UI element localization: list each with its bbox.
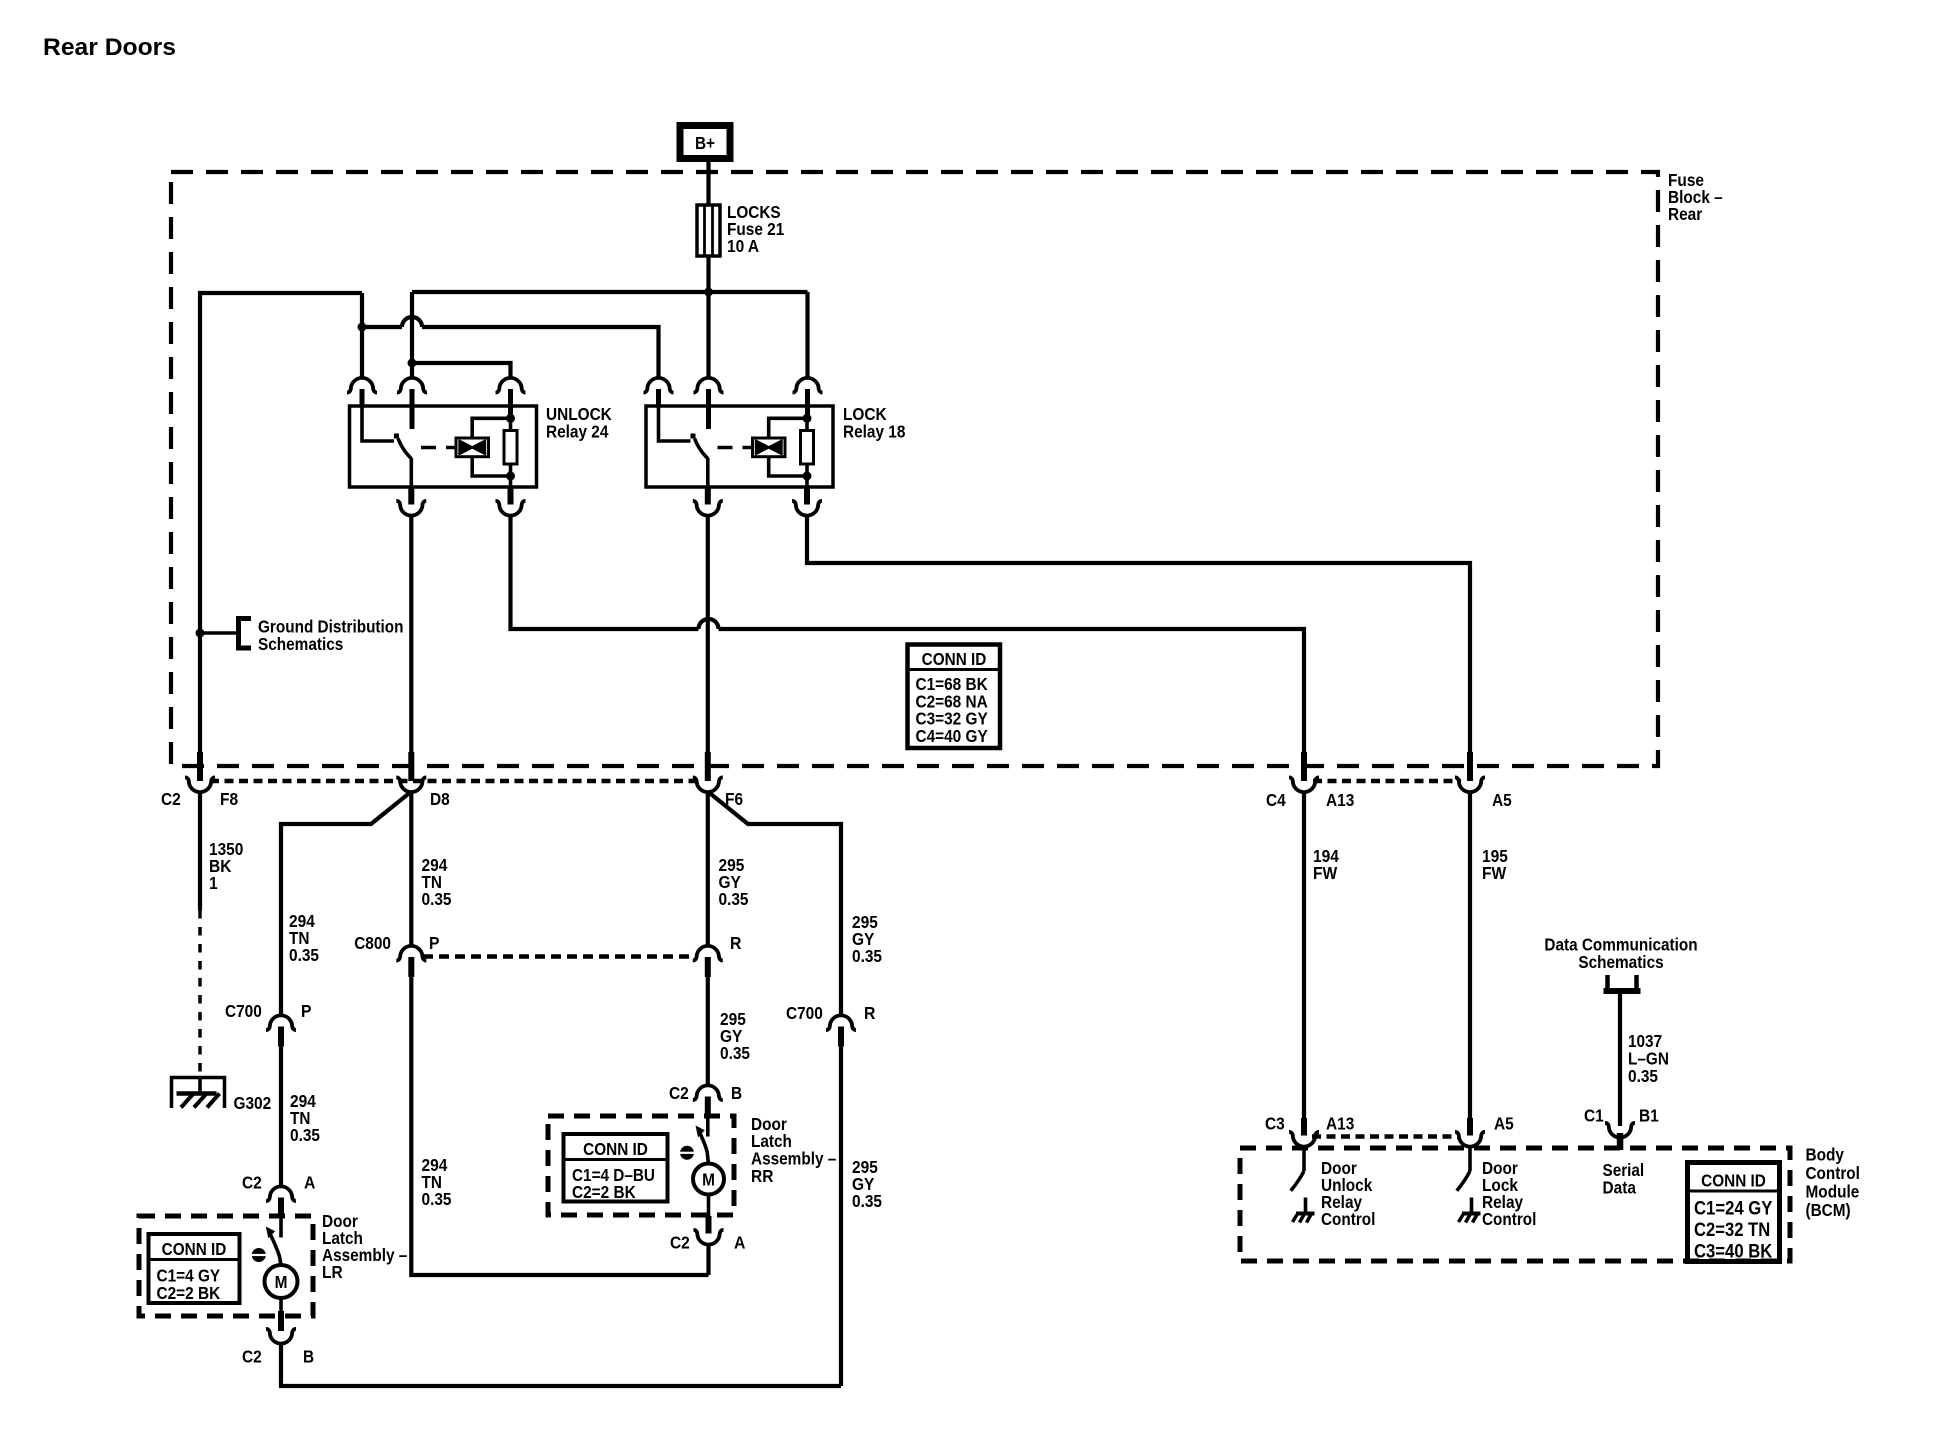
svg-text:0.35: 0.35 xyxy=(720,1043,750,1063)
svg-text:CONN ID: CONN ID xyxy=(922,649,987,669)
connector at lock relay pin 1 xyxy=(644,378,674,406)
connector table CONN ID (RR latch) xyxy=(564,1134,668,1202)
ground distribution off-page bracket xyxy=(239,619,252,649)
lock relay coil xyxy=(753,438,786,457)
svg-text:C2: C2 xyxy=(242,1347,262,1367)
svg-text:Control: Control xyxy=(1806,1163,1860,1183)
label: UNLOCK Relay 24 xyxy=(546,404,612,442)
svg-text:0.35: 0.35 xyxy=(289,945,319,965)
unlock relay fixed contact wire xyxy=(362,406,394,441)
fuse block - rear dashed outline box xyxy=(171,172,1658,766)
wire: circuit 1037 serial data xyxy=(1618,994,1622,1126)
wire: unlock relay pin 4 down to D8 xyxy=(409,514,413,753)
connector at lock relay pin 3 xyxy=(793,378,823,419)
svg-text:0.35: 0.35 xyxy=(1628,1066,1658,1086)
svg-text:Relay 24: Relay 24 xyxy=(546,422,609,442)
lock relay fixed contact wire xyxy=(659,406,691,441)
svg-text:Schematics: Schematics xyxy=(258,634,344,654)
svg-text:Body: Body xyxy=(1806,1145,1845,1165)
wire: F6 branch to C700 R xyxy=(709,793,841,1017)
wire: lock coil bottom rail xyxy=(769,457,807,476)
label: LOCK Relay 18 xyxy=(843,404,906,442)
label: 294 TN 0.35 (C700 branch) xyxy=(289,911,319,965)
wire: C800 P to RR latch pin A xyxy=(411,977,708,1275)
label: 295 GY 0.35 (right side) xyxy=(852,1157,882,1211)
junction unlock coil top xyxy=(506,414,515,423)
svg-text:C2=2 BK: C2=2 BK xyxy=(572,1182,636,1202)
wire: RR motor to pin A xyxy=(707,1195,711,1217)
svg-text:1: 1 xyxy=(209,873,218,893)
wire: branch to unlock relay pin 3 xyxy=(412,363,511,379)
svg-text:Data: Data xyxy=(1603,1178,1637,1198)
wire: unlock switch arm to pin 4 xyxy=(409,458,413,487)
label: 1350 BK 1 xyxy=(209,839,244,893)
svg-text:C4=40 GY: C4=40 GY xyxy=(916,726,988,746)
svg-text:CONN ID: CONN ID xyxy=(583,1139,648,1159)
svg-text:C3=40 BK: C3=40 BK xyxy=(1694,1242,1773,1263)
svg-text:P: P xyxy=(301,1001,312,1021)
wire: vertical from rail to unlock relay pin 2 xyxy=(410,292,414,379)
svg-text:C2: C2 xyxy=(669,1083,689,1103)
wire: D8 branch to C700 P xyxy=(281,793,410,1017)
svg-text:C2=2 BK: C2=2 BK xyxy=(157,1283,221,1303)
wire: BCM unlock driver stub xyxy=(1302,1146,1306,1172)
svg-text:B1: B1 xyxy=(1639,1106,1659,1126)
svg-text:(BCM): (BCM) xyxy=(1806,1200,1851,1220)
wire: unlock relay pin 5 to BCM A13 feed with hop over F6 wire xyxy=(511,514,1305,753)
svg-text:0.35: 0.35 xyxy=(422,889,452,909)
svg-text:C1=24 GY: C1=24 GY xyxy=(1694,1199,1773,1220)
connector C2 pin B (RR latch) xyxy=(693,1085,723,1114)
svg-text:10 A: 10 A xyxy=(727,236,759,256)
svg-text:M: M xyxy=(275,1272,288,1292)
wire: resistor stubs xyxy=(509,418,513,487)
LR latch actuator symbol xyxy=(251,1248,266,1262)
svg-text:Module: Module xyxy=(1806,1182,1860,1202)
BCM unlock driver ground xyxy=(1293,1198,1315,1223)
svg-text:F8: F8 xyxy=(220,789,238,809)
in-line connector row BCM dotted line xyxy=(1312,1134,1458,1139)
wire: fuse to feed rail xyxy=(706,256,710,292)
connector table CONN ID (BCM) xyxy=(1688,1163,1780,1263)
svg-text:A5: A5 xyxy=(1494,1114,1514,1134)
svg-text:0.35: 0.35 xyxy=(290,1125,320,1145)
junction on unlock output branch xyxy=(358,323,367,332)
door latch assembly LR dashed box xyxy=(139,1216,313,1316)
in-line connector row C4 dotted line xyxy=(1313,779,1461,784)
wire: lock relay pin 5 to BCM A5 feed xyxy=(807,514,1470,753)
connector C3 pin A5 (BCM) xyxy=(1455,1118,1485,1147)
label: 295 GY 0.35 (F6 drop) xyxy=(719,855,749,909)
LR latch switch arm with arrowhead xyxy=(266,1227,281,1266)
svg-text:0.35: 0.35 xyxy=(719,889,749,909)
label: Door Latch Assembly - RR xyxy=(751,1114,837,1186)
connector table CONN ID (fuse block) xyxy=(908,645,1001,749)
svg-text:0.35: 0.35 xyxy=(422,1189,452,1209)
wire: LR motor to pin B xyxy=(279,1298,283,1312)
wire: C800 R to RR latch pin B xyxy=(706,977,710,1087)
svg-text:C4: C4 xyxy=(1266,790,1286,810)
svg-text:A: A xyxy=(304,1173,316,1193)
svg-text:M: M xyxy=(702,1170,715,1190)
svg-text:C2: C2 xyxy=(161,789,181,809)
label: 294 TN 0.35 (D8 drop) xyxy=(422,855,452,909)
lock relay contact point xyxy=(691,434,696,439)
connector table CONN ID (LR latch) xyxy=(149,1234,240,1303)
connector C1 pin B1 xyxy=(1605,1123,1635,1150)
svg-text:C2: C2 xyxy=(670,1233,690,1253)
wire: B+ to fuse xyxy=(706,162,710,206)
wire: bottom link LR latch B to 295 GY xyxy=(281,1343,841,1387)
BCM unlock driver switch arm xyxy=(1291,1171,1304,1191)
junction unlock coil feed xyxy=(408,359,417,368)
svg-text:FW: FW xyxy=(1313,863,1338,883)
door latch assembly RR dashed box xyxy=(548,1116,734,1215)
wire: branch rail to lock relay pin 1 with hop xyxy=(362,317,659,379)
svg-text:R: R xyxy=(864,1003,876,1023)
label: Ground Distribution Schematics xyxy=(258,617,404,655)
junction lock coil bottom xyxy=(803,472,812,481)
unlock relay coil linkage (dashed) xyxy=(421,446,456,450)
wire: F6 to C800 R xyxy=(706,791,710,948)
svg-text:Rear: Rear xyxy=(1668,204,1702,224)
wire: fuse node down to lock relay pin 30 xyxy=(706,292,710,379)
connector at unlock relay pin 4 xyxy=(396,487,426,516)
wire: circuit 1350 BK to ground (part solid) xyxy=(198,791,202,910)
in-line connector row C800 dotted line xyxy=(423,954,696,959)
connector at lock relay pin 4 xyxy=(693,487,723,516)
label: Data Communication Schematics xyxy=(1544,935,1697,973)
relay K18 LOCK Relay box xyxy=(646,406,833,487)
svg-text:Control: Control xyxy=(1482,1209,1536,1229)
wire: RR latch B pin into switch xyxy=(706,1115,710,1137)
connector C2 pin A (LR latch) xyxy=(266,1186,296,1215)
svg-text:B: B xyxy=(303,1347,314,1367)
lock relay resistor xyxy=(801,431,814,465)
svg-text:0.35: 0.35 xyxy=(852,1191,882,1211)
svg-text:RR: RR xyxy=(751,1166,774,1186)
svg-text:A13: A13 xyxy=(1326,1114,1355,1134)
svg-text:CONN ID: CONN ID xyxy=(1701,1171,1766,1191)
junction at fuse node xyxy=(704,288,713,297)
svg-text:P: P xyxy=(429,933,440,953)
junction to ground distribution xyxy=(196,629,205,638)
connector C2 pin D8 xyxy=(396,752,426,792)
label: Door Unlock Relay Control xyxy=(1321,1158,1375,1229)
svg-text:R: R xyxy=(730,933,742,953)
svg-text:A5: A5 xyxy=(1492,790,1512,810)
wire: rail corner down to lock relay coil pin xyxy=(805,292,809,379)
junction lock coil top xyxy=(803,414,812,423)
label: 195 FW xyxy=(1482,846,1508,883)
svg-text:B+: B+ xyxy=(695,133,715,153)
RR latch actuator symbol xyxy=(680,1146,695,1160)
svg-text:C700: C700 xyxy=(225,1001,262,1021)
connector C800 pin P xyxy=(396,946,426,977)
ground G302 xyxy=(172,1078,225,1109)
wire: circuit 1350 BK dashed section xyxy=(198,910,202,1076)
wire: D8 to C800 P xyxy=(409,791,413,948)
label: 194 FW xyxy=(1313,846,1339,883)
wire: feed rail right (fuse node to lock relay pins) xyxy=(412,290,808,294)
label: 1037 L-GN 0.35 xyxy=(1628,1031,1669,1086)
svg-text:C3: C3 xyxy=(1265,1114,1285,1134)
connector at lock relay pin 5 xyxy=(792,487,822,516)
svg-text:LR: LR xyxy=(322,1262,343,1282)
wire: lock coil top rail xyxy=(769,418,807,438)
svg-text:A: A xyxy=(734,1233,746,1253)
label: 295 GY 0.35 (to RR latch) xyxy=(720,1009,750,1063)
connector C4 pin A13 xyxy=(1289,752,1319,792)
connector at unlock relay pin 2 xyxy=(397,378,427,429)
svg-text:C2=32 TN: C2=32 TN xyxy=(1694,1220,1770,1241)
body control module dashed box xyxy=(1240,1148,1790,1261)
BCM lock driver ground xyxy=(1459,1198,1481,1223)
connector at unlock relay pin 5 xyxy=(496,487,526,516)
svg-text:CONN ID: CONN ID xyxy=(162,1239,227,1259)
connector at unlock relay pin 3 xyxy=(496,378,526,419)
wire: lock resistor stubs xyxy=(805,418,809,487)
label: 294 TN 0.35 (to RR latch) xyxy=(422,1155,452,1209)
connector C2 pin F6 xyxy=(693,752,723,792)
wire: vertical to unlock relay pin 1 xyxy=(360,293,364,379)
wire: unlock coil bottom rail xyxy=(472,457,510,476)
svg-text:G302: G302 xyxy=(234,1093,272,1113)
connector C4 pin A5 xyxy=(1455,752,1485,792)
wire: BCM lock driver stub xyxy=(1468,1146,1472,1172)
connector C2 pin B (LR latch) xyxy=(266,1311,296,1344)
label: 294 TN 0.35 (to LR latch) xyxy=(290,1091,320,1145)
label: Door Lock Relay Control xyxy=(1482,1158,1536,1229)
lock relay switch arm xyxy=(695,439,708,459)
wire: stub to ground distribution reference xyxy=(200,631,237,635)
lock relay coil linkage (dashed) xyxy=(718,446,753,450)
svg-text:Rear Doors: Rear Doors xyxy=(43,34,176,61)
connector C800 pin R xyxy=(693,946,723,977)
label: Serial Data xyxy=(1603,1160,1645,1198)
unlock relay coil xyxy=(456,438,489,457)
label: 295 GY 0.35 (C700 branch) xyxy=(852,912,882,966)
svg-text:Schematics: Schematics xyxy=(1578,952,1664,972)
svg-text:C700: C700 xyxy=(786,1003,823,1023)
wire: C700 P to LR latch pin A xyxy=(279,1047,283,1188)
label: LOCKS Fuse 21 10 A xyxy=(727,202,785,256)
connector at lock relay pin 2 xyxy=(694,378,724,429)
connector C3 pin A13 (BCM) xyxy=(1289,1118,1319,1147)
wire: C700 R down right side xyxy=(839,1047,843,1387)
svg-text:FW: FW xyxy=(1482,863,1507,883)
fuse 21 LOCKS 10A xyxy=(697,205,720,256)
wire: lock switch arm to pin 4 xyxy=(706,458,710,487)
wire: feed rail left segment xyxy=(200,293,362,753)
wire: unlock coil top rail xyxy=(472,418,510,438)
label: Door Latch Assembly - LR xyxy=(322,1211,408,1282)
wire: RR pin A to 294 link xyxy=(706,1244,710,1276)
data communication off-page bracket xyxy=(1604,975,1641,994)
connector at unlock relay pin 1 xyxy=(347,378,377,406)
wire: BCM A13 control drop xyxy=(1302,791,1306,1119)
motor M (RR latch) xyxy=(693,1164,724,1195)
svg-text:D8: D8 xyxy=(430,789,450,809)
svg-text:Relay 18: Relay 18 xyxy=(843,422,906,442)
unlock relay switch arm xyxy=(398,439,411,459)
wire: BCM A5 control drop xyxy=(1468,791,1472,1119)
in-line connector row C2 dotted line xyxy=(210,779,699,784)
connector C700 pin R xyxy=(826,1015,856,1046)
junction unlock coil bottom xyxy=(506,472,515,481)
svg-text:C800: C800 xyxy=(354,933,391,953)
wire: lock relay pin 4 down to F6 xyxy=(706,514,710,753)
BCM lock driver switch arm xyxy=(1457,1171,1470,1191)
svg-text:C1: C1 xyxy=(1584,1106,1604,1126)
svg-text:0.35: 0.35 xyxy=(852,946,882,966)
unlock relay resistor xyxy=(504,431,517,465)
power node B+ xyxy=(680,126,730,159)
motor M (LR latch) xyxy=(265,1265,298,1298)
svg-text:A13: A13 xyxy=(1326,790,1355,810)
connector C700 pin P xyxy=(266,1015,296,1046)
svg-text:C2: C2 xyxy=(242,1173,262,1193)
svg-text:Control: Control xyxy=(1321,1209,1375,1229)
RR latch switch arm with arrowhead xyxy=(696,1126,709,1164)
relay K24 UNLOCK Relay box xyxy=(350,406,537,487)
wire: serial data stub into BCM xyxy=(1618,1148,1622,1152)
connector C2 pin F8 xyxy=(185,752,215,792)
connector C2 pin A (RR latch) xyxy=(694,1216,724,1245)
unlock relay contact point xyxy=(394,434,399,439)
svg-text:B: B xyxy=(731,1083,742,1103)
wire: LR latch A pin into switch xyxy=(279,1216,283,1238)
label: Body Control Module (BCM) xyxy=(1806,1145,1860,1221)
